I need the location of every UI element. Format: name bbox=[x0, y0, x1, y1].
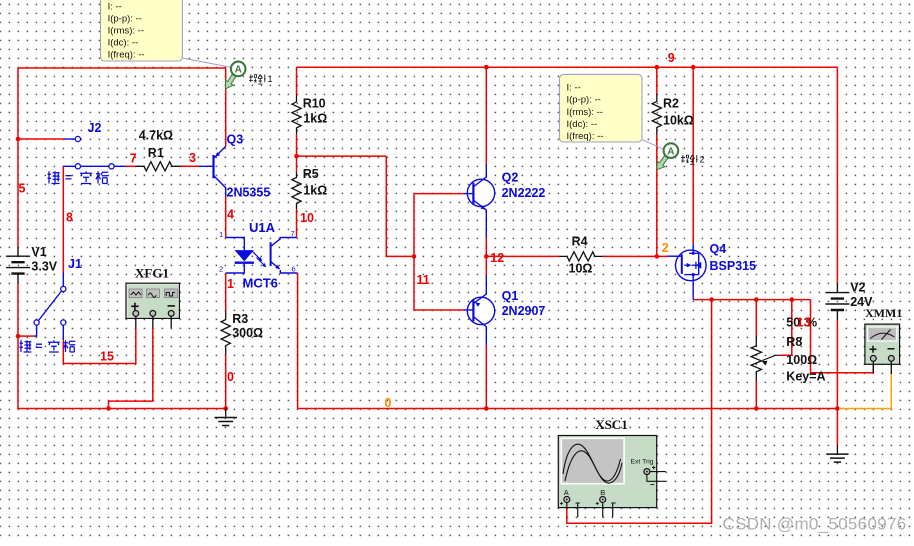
wire net2 R2 bottom bbox=[656, 135, 658, 256]
wire net9 to Q2 collector bbox=[485, 67, 487, 164]
label Q2 type bbox=[502, 186, 546, 200]
svg-text:0: 0 bbox=[385, 396, 392, 410]
label Q4 type bbox=[710, 259, 757, 273]
wire net9 top bus bbox=[297, 66, 838, 68]
wire net12 Q2 emitter bbox=[485, 238, 487, 256]
wire Q4 source bus bbox=[693, 299, 810, 301]
transistor Q3 bbox=[199, 146, 226, 196]
node junction left bus ground bbox=[223, 406, 228, 411]
wire net12 to R4 bbox=[486, 255, 559, 257]
node junction Q1 ground bus bbox=[484, 406, 489, 411]
label Q1 type bbox=[502, 304, 546, 318]
label key space J2 bbox=[48, 170, 109, 184]
node junction net12 bbox=[484, 254, 489, 259]
resistor R4 bbox=[559, 252, 603, 261]
wire net11 to Q2 base bbox=[414, 194, 464, 257]
svg-text:I: --: I: -- bbox=[108, 1, 122, 12]
svg-text:3.3V: 3.3V bbox=[31, 259, 57, 273]
svg-text:2N2907: 2N2907 bbox=[502, 304, 546, 318]
label R5 bbox=[303, 167, 328, 198]
svg-text:R1: R1 bbox=[148, 146, 164, 160]
svg-text:2N5355: 2N5355 bbox=[227, 186, 271, 200]
ground right bbox=[826, 445, 848, 462]
svg-text:1: 1 bbox=[219, 230, 223, 239]
svg-text:4.7kΩ: 4.7kΩ bbox=[139, 129, 173, 143]
svg-text:I(dc): --: I(dc): -- bbox=[567, 119, 598, 130]
wire XMM minus orange bbox=[839, 374, 891, 409]
svg-text:I(p-p): --: I(p-p): -- bbox=[567, 95, 601, 106]
label net15 bbox=[100, 350, 114, 364]
node junction R8 wiper bbox=[790, 297, 795, 302]
svg-text:11: 11 bbox=[417, 273, 430, 287]
transistor Q1 bbox=[464, 275, 495, 345]
svg-text:Q1: Q1 bbox=[502, 289, 519, 303]
wire net12 Q1 emitter bbox=[485, 256, 487, 275]
svg-text:I(p-p): --: I(p-p): -- bbox=[108, 13, 142, 24]
label R10 bbox=[303, 96, 328, 125]
svg-text:2N2222: 2N2222 bbox=[502, 186, 546, 200]
svg-text:XFG1: XFG1 bbox=[135, 266, 169, 281]
label key space J1 bbox=[20, 339, 76, 353]
resistor R3 bbox=[221, 311, 230, 355]
node junction R8 top bbox=[754, 297, 759, 302]
label probe2 name bbox=[681, 155, 705, 165]
probe 1 current probe bbox=[226, 62, 246, 89]
label net1 bbox=[227, 277, 234, 291]
svg-text:I(dc): --: I(dc): -- bbox=[108, 38, 139, 49]
label U1A pin2 bbox=[219, 265, 223, 274]
wire net5 to Q3 emitter bbox=[225, 68, 227, 146]
instrument XSC1 oscilloscope bbox=[558, 436, 666, 518]
label net13 bbox=[797, 316, 811, 330]
wire net10 R5 junction feed bbox=[297, 155, 387, 157]
svg-text:B: B bbox=[600, 488, 605, 497]
label XFG1 bbox=[135, 266, 169, 281]
wire net11 down segment bbox=[386, 156, 414, 256]
label net5 bbox=[19, 181, 26, 195]
label net10 bbox=[300, 211, 314, 225]
svg-text:XMM1: XMM1 bbox=[865, 306, 902, 320]
label U1A type bbox=[243, 276, 278, 291]
optocoupler U1A bbox=[226, 238, 298, 274]
watermark bbox=[723, 515, 907, 534]
label net4 bbox=[227, 208, 234, 222]
label net8 bbox=[66, 211, 73, 225]
svg-text:10Ω: 10Ω bbox=[569, 262, 593, 276]
label J1 bbox=[68, 257, 82, 271]
node junction net2 bbox=[655, 254, 660, 259]
node junction R10 R5 bbox=[294, 154, 299, 159]
instrument XMM1 multimeter bbox=[865, 324, 900, 374]
wire XFG1 common to ground bus bbox=[109, 328, 153, 409]
svg-text:V1: V1 bbox=[31, 245, 46, 259]
label R3 bbox=[232, 312, 263, 340]
svg-text:A: A bbox=[564, 488, 569, 497]
label net11 bbox=[417, 273, 430, 287]
wire net2 R4 to Q4 gate bbox=[603, 255, 668, 257]
wire net9 Q4 drain drop bbox=[692, 67, 694, 244]
wire net0 U1A pin8 down bbox=[297, 273, 299, 409]
label Q2 bbox=[502, 171, 519, 185]
node junction net5 bbox=[16, 137, 21, 142]
resistor R10 bbox=[292, 95, 301, 135]
svg-text:7: 7 bbox=[291, 229, 295, 238]
svg-text:12: 12 bbox=[490, 251, 504, 265]
label Q3 bbox=[227, 133, 244, 147]
label net2 bbox=[662, 241, 669, 255]
switch J1 bbox=[34, 273, 66, 341]
wire net10 R10 to R5 bbox=[296, 135, 298, 172]
wire net9 R2 drop bbox=[656, 67, 658, 94]
svg-text:13: 13 bbox=[797, 316, 811, 330]
label R1 value bbox=[139, 129, 173, 143]
svg-text:U1A: U1A bbox=[249, 220, 276, 235]
instrument XFG1 function generator bbox=[126, 283, 179, 328]
svg-text:I: --: I: -- bbox=[567, 83, 581, 94]
label Q3 type bbox=[227, 186, 271, 200]
svg-text:=: = bbox=[36, 339, 43, 353]
label U1A pin8 bbox=[292, 265, 296, 274]
svg-text:R2: R2 bbox=[663, 97, 679, 111]
svg-text:Ext Trig: Ext Trig bbox=[631, 459, 654, 466]
svg-text:A: A bbox=[667, 146, 674, 157]
svg-text:Q2: Q2 bbox=[502, 171, 519, 185]
svg-text:XSC1: XSC1 bbox=[595, 417, 628, 432]
label net7 bbox=[130, 151, 137, 165]
svg-text:9: 9 bbox=[668, 51, 675, 65]
node junction R8 ground bbox=[754, 406, 759, 411]
label Q1 bbox=[502, 289, 519, 303]
battery V2 bbox=[825, 283, 849, 319]
wire net0 left bus bbox=[18, 283, 226, 409]
probe 2 current probe bbox=[657, 143, 678, 170]
wire net4 Q3 to U1A pin1 bbox=[225, 196, 227, 238]
svg-text:2: 2 bbox=[219, 265, 223, 274]
label XSC1 bbox=[595, 417, 628, 432]
label R8 percent bbox=[786, 315, 817, 329]
svg-text:Q3: Q3 bbox=[227, 133, 244, 147]
svg-text:V2: V2 bbox=[850, 281, 865, 295]
svg-text:MCT6: MCT6 bbox=[243, 276, 278, 291]
svg-text:6: 6 bbox=[292, 265, 296, 274]
wire net XMM plus bbox=[811, 300, 874, 373]
svg-text:5: 5 bbox=[19, 181, 26, 195]
ground left bbox=[215, 409, 237, 426]
svg-text:2: 2 bbox=[700, 155, 705, 165]
wire net9 R10 drop bbox=[296, 67, 298, 95]
label Q4 bbox=[710, 242, 727, 256]
resistor R1 bbox=[136, 162, 181, 171]
svg-text:I(rms): --: I(rms): -- bbox=[108, 26, 144, 37]
label U1A pin7 bbox=[291, 229, 295, 238]
label net3 bbox=[189, 151, 196, 165]
svg-text:I(freq): --: I(freq): -- bbox=[567, 131, 604, 142]
potentiometer R8 bbox=[751, 336, 780, 382]
label V1 bbox=[31, 245, 57, 273]
label U1A bbox=[249, 220, 276, 235]
label net0 right bbox=[385, 396, 392, 410]
node junction scope tap bbox=[709, 297, 714, 302]
wire net10 R5 to U1A pin7 bbox=[296, 209, 298, 237]
svg-text:8: 8 bbox=[66, 211, 73, 225]
resistor R5 bbox=[292, 172, 301, 210]
label probe1 name bbox=[249, 74, 273, 84]
wire net9 to V2 bbox=[836, 67, 838, 283]
label net9 bbox=[668, 51, 675, 65]
svg-text:BSP315: BSP315 bbox=[710, 259, 757, 273]
wire net15 J1 to XFG1 bbox=[63, 328, 136, 364]
svg-text:100Ω: 100Ω bbox=[786, 353, 817, 367]
mosfet Q4 bbox=[668, 244, 707, 300]
node junction net9 R2 bbox=[655, 65, 660, 70]
switch J2 blade and terminals bbox=[63, 164, 125, 169]
wire net1 U1A pin2 to R3 bbox=[225, 273, 227, 311]
svg-text:I(rms): --: I(rms): -- bbox=[567, 107, 603, 118]
label R2 bbox=[663, 97, 694, 128]
svg-text:0: 0 bbox=[227, 370, 234, 384]
svg-text:R5: R5 bbox=[303, 167, 319, 181]
svg-text:CSDN @m0_50560976: CSDN @m0_50560976 bbox=[723, 515, 907, 534]
svg-text:2: 2 bbox=[662, 241, 669, 255]
node junction V1 J1 bbox=[16, 334, 21, 339]
label J2 bbox=[88, 121, 102, 135]
svg-text:Q4: Q4 bbox=[710, 242, 727, 256]
wire net5 left vertical bbox=[17, 68, 19, 247]
wire scope channelA run bbox=[567, 300, 712, 524]
wire V2 minus to ground bbox=[836, 320, 838, 445]
svg-text:4: 4 bbox=[227, 208, 234, 222]
label XMM1 bbox=[865, 306, 902, 320]
svg-text:1: 1 bbox=[227, 277, 234, 291]
svg-text:1kΩ: 1kΩ bbox=[303, 184, 327, 198]
battery V1 bbox=[6, 247, 30, 283]
svg-text:R10: R10 bbox=[303, 96, 326, 110]
wire net8 J2 to J1 bbox=[62, 166, 64, 272]
label R4 bbox=[569, 235, 593, 276]
wire net0 Q1 collector down bbox=[485, 345, 487, 409]
svg-text:3: 3 bbox=[189, 151, 196, 165]
wire net3 R1 to Q3 base bbox=[180, 165, 199, 167]
callout line probe1 bbox=[182, 58, 231, 67]
switch J2 terminal top bbox=[75, 136, 80, 141]
svg-text:J2: J2 bbox=[88, 121, 102, 135]
wire R8 top lead bbox=[755, 300, 757, 336]
callout line probe2 bbox=[642, 140, 664, 150]
svg-text:7: 7 bbox=[130, 151, 137, 165]
svg-text:I(freq): --: I(freq): -- bbox=[108, 50, 145, 61]
node junction ground bus V2 bbox=[835, 406, 840, 411]
node junction Q2 collector bbox=[484, 65, 489, 70]
svg-text:A: A bbox=[235, 65, 242, 76]
node junction net9 Q4 bbox=[691, 65, 696, 70]
svg-text:R4: R4 bbox=[572, 235, 588, 249]
wire R8 wiper up bbox=[780, 300, 792, 356]
svg-text:10kΩ: 10kΩ bbox=[663, 114, 694, 128]
label V2 bbox=[850, 281, 873, 309]
svg-text:15: 15 bbox=[100, 350, 114, 364]
wire net5 to J2 throw bbox=[18, 138, 75, 140]
svg-text:10: 10 bbox=[300, 211, 314, 225]
svg-text:=: = bbox=[65, 170, 72, 184]
label R1 bbox=[148, 146, 164, 160]
wire net0 right bus bbox=[298, 408, 838, 410]
wire R8 bottom to ground bus bbox=[755, 382, 757, 409]
tooltip probe2 readings bbox=[560, 74, 643, 142]
node junction XFG1 ground bbox=[106, 406, 111, 411]
svg-text:R3: R3 bbox=[232, 312, 248, 326]
label U1A pin1 bbox=[219, 230, 223, 239]
transistor Q2 bbox=[464, 164, 495, 238]
resistor R2 bbox=[652, 94, 661, 135]
svg-text:1: 1 bbox=[268, 74, 273, 84]
svg-text:1kΩ: 1kΩ bbox=[303, 112, 327, 126]
wire net11 to Q1 base bbox=[414, 256, 464, 310]
svg-text:Key=A: Key=A bbox=[786, 370, 825, 384]
node junction net11 bbox=[412, 254, 417, 259]
wire net7 J2 to R1 bbox=[126, 165, 136, 167]
label net12 bbox=[490, 251, 504, 265]
svg-text:R8: R8 bbox=[786, 335, 802, 349]
tooltip probe1 readings bbox=[101, 0, 183, 61]
label R8 bbox=[786, 335, 825, 384]
label net0 left bbox=[227, 370, 234, 384]
wire net5 top-left bus bbox=[18, 67, 226, 69]
svg-text:J1: J1 bbox=[68, 257, 82, 271]
svg-text:300Ω: 300Ω bbox=[232, 326, 263, 340]
wire J1 throw to V1 bus bbox=[18, 335, 34, 337]
wire net0 R3 to left ground bus bbox=[225, 355, 227, 409]
